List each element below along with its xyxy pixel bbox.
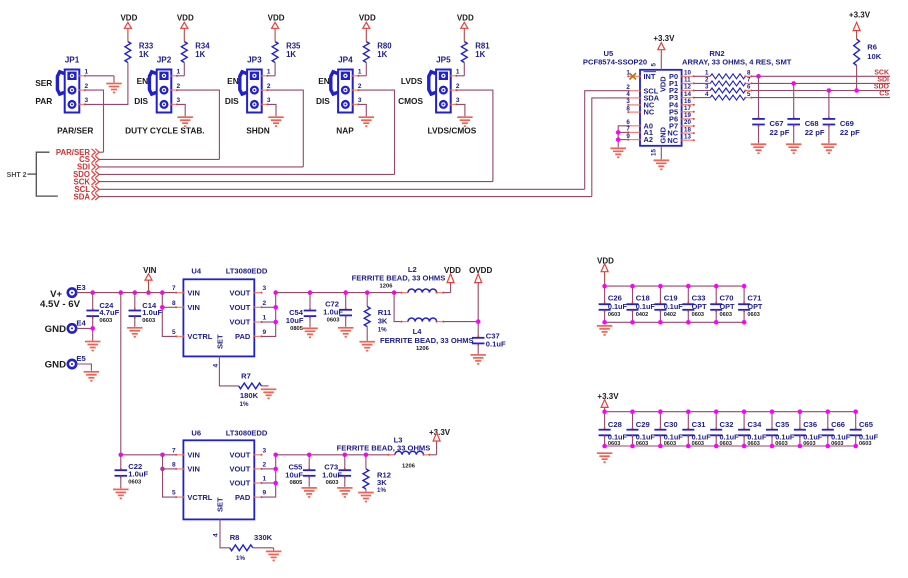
svg-text:1%: 1% <box>240 401 249 408</box>
svg-text:CMOS: CMOS <box>398 96 423 106</box>
svg-text:15: 15 <box>651 149 658 156</box>
U6 pin 9 PAD <box>235 490 266 502</box>
wire net SCL <box>99 188 585 190</box>
U6 SET label <box>213 497 225 537</box>
svg-text:2: 2 <box>358 83 362 90</box>
ground JP2 pin3 <box>177 117 193 126</box>
svg-text:3: 3 <box>177 97 181 104</box>
svg-text:2: 2 <box>456 83 460 90</box>
svg-text:1K: 1K <box>377 50 387 59</box>
label DIS JP4 <box>316 96 330 106</box>
svg-text:DUTY CYCLE STAB.: DUTY CYCLE STAB. <box>125 126 204 136</box>
power VDD R33 <box>120 14 137 42</box>
wire CS out <box>752 97 891 99</box>
label V+ <box>50 289 62 300</box>
junction u6b <box>160 467 165 472</box>
inductor L4 <box>380 318 478 352</box>
svg-text:INT: INT <box>644 72 656 81</box>
capacitor C14 <box>129 293 163 327</box>
svg-text:0603: 0603 <box>692 312 704 318</box>
svg-text:3: 3 <box>705 84 709 91</box>
svg-text:11: 11 <box>684 77 691 84</box>
svg-text:LT3080EDD: LT3080EDD <box>226 429 268 438</box>
svg-text:1206: 1206 <box>380 283 394 289</box>
U5 pin 16 P4 <box>669 98 695 109</box>
wire JP5 pin3 to ground <box>456 104 465 116</box>
wire U5 address pins <box>618 126 628 148</box>
svg-text:4: 4 <box>213 533 220 537</box>
U5 pin 8 NC <box>626 105 654 116</box>
ground VDD bank <box>597 326 613 335</box>
svg-text:SHDN: SHDN <box>246 126 270 136</box>
ground +3.3V bank <box>597 453 613 462</box>
capacitor C69 <box>823 91 860 144</box>
capacitor C33 <box>682 284 707 325</box>
RN2 resistor 1 <box>694 70 753 79</box>
RN2 resistor 2 <box>694 77 753 86</box>
wire JP3 pin1 to R35 <box>267 63 275 76</box>
junction input <box>90 290 95 295</box>
wire JP2 pin3 to ground <box>177 104 186 116</box>
wire U6 vin branch <box>163 455 177 497</box>
capacitor C55 <box>285 455 315 487</box>
junction E4 <box>90 326 95 331</box>
svg-text:NC: NC <box>644 108 655 117</box>
wire JP1 pin1 to ground <box>85 76 114 83</box>
junction input <box>119 290 124 295</box>
wire vout1 <box>262 321 276 323</box>
resistor R33 <box>125 42 154 63</box>
U5 pin 7 A1 <box>626 126 653 137</box>
capacitor C68 <box>787 83 824 143</box>
ground C37 <box>470 355 486 364</box>
svg-text:1K: 1K <box>139 50 149 59</box>
junction input <box>133 290 138 295</box>
node SCK <box>874 69 889 76</box>
svg-text:E4: E4 <box>76 319 86 328</box>
svg-text:12: 12 <box>684 84 691 91</box>
label PAR/SER <box>57 126 93 136</box>
U6 pin 2 VOUT <box>229 462 266 474</box>
svg-text:C32: C32 <box>720 420 734 429</box>
svg-text:1206: 1206 <box>402 463 416 469</box>
svg-text:10K: 10K <box>867 52 881 61</box>
wire JP5 pin2 to SCK <box>456 90 493 182</box>
node SDI <box>877 76 889 83</box>
junction C67 <box>756 74 761 79</box>
ground JP3 pin3 <box>268 117 284 126</box>
wire VDD bus bottom <box>605 321 745 323</box>
svg-text:+3.3V: +3.3V <box>849 11 871 20</box>
junction L4 OVDD <box>476 319 481 324</box>
svg-text:22 pF: 22 pF <box>805 128 825 137</box>
svg-text:1K: 1K <box>475 50 485 59</box>
svg-text:1: 1 <box>263 315 267 322</box>
svg-text:3: 3 <box>456 97 460 104</box>
svg-text:0.1uF: 0.1uF <box>664 302 684 311</box>
node SDA <box>74 192 100 201</box>
svg-text:VCTRL: VCTRL <box>187 493 212 502</box>
label NAP <box>336 126 354 136</box>
svg-text:VIN: VIN <box>187 303 200 312</box>
U5 pin 10 P0 <box>669 70 695 81</box>
svg-text:U4: U4 <box>191 266 201 275</box>
svg-text:0.1uF: 0.1uF <box>636 302 656 311</box>
svg-text:0402: 0402 <box>664 312 676 318</box>
ground JP1 pin1 <box>106 84 122 93</box>
U5 pin 2 SCL <box>626 84 658 95</box>
svg-text:0.1uF: 0.1uF <box>608 302 628 311</box>
node SDO <box>874 84 890 91</box>
svg-text:2: 2 <box>85 83 89 90</box>
svg-text:1%: 1% <box>377 487 386 494</box>
svg-text:13: 13 <box>684 133 691 140</box>
U5 pin 11 P1 <box>669 77 695 88</box>
wire net SDA <box>99 196 592 198</box>
resistor R6 <box>854 39 882 65</box>
svg-text:GND: GND <box>45 360 66 371</box>
svg-text:7: 7 <box>747 77 751 84</box>
junction A1 <box>616 130 621 135</box>
svg-text:C67: C67 <box>770 119 784 128</box>
wire OVDD down <box>477 283 479 338</box>
svg-text:LVDS: LVDS <box>401 76 423 86</box>
svg-text:VDD: VDD <box>177 14 194 23</box>
junction output <box>365 290 370 295</box>
capacitor C19 <box>654 284 683 325</box>
svg-text:3: 3 <box>626 98 630 105</box>
svg-text:NAP: NAP <box>336 126 354 136</box>
label EN JP3 <box>227 76 239 86</box>
wire JP3 pin3 to ground <box>267 104 276 116</box>
svg-text:LVDS/CMOS: LVDS/CMOS <box>428 126 477 136</box>
wire U4 vin branch <box>162 293 176 337</box>
svg-text:SDO: SDO <box>874 84 890 91</box>
wire R6 to SDO <box>856 65 858 90</box>
terminal E5 <box>68 354 87 368</box>
capacitor C71 <box>738 284 763 325</box>
capacitor C18 <box>627 284 656 325</box>
svg-text:U5: U5 <box>604 49 614 58</box>
ground R12 <box>358 493 374 502</box>
svg-text:0603: 0603 <box>326 480 340 486</box>
wire net PAR/SER <box>99 151 103 153</box>
svg-text:9: 9 <box>263 329 267 336</box>
svg-text:JP4: JP4 <box>338 55 353 64</box>
svg-text:4: 4 <box>705 91 709 98</box>
svg-text:SCK: SCK <box>874 69 889 76</box>
junction vout2 <box>273 305 278 310</box>
power VDD bank <box>597 256 614 286</box>
U5 VDD pin 5 <box>651 50 668 92</box>
svg-text:C69: C69 <box>840 119 854 128</box>
svg-text:JP3: JP3 <box>247 55 262 64</box>
svg-text:R8: R8 <box>230 533 240 542</box>
label 4.5V - 6V <box>40 299 81 310</box>
svg-text:VIN: VIN <box>187 465 200 474</box>
svg-text:LT3080EDD: LT3080EDD <box>226 266 268 275</box>
capacitor C31 <box>682 409 711 448</box>
U5 pin 6 A0 <box>626 119 653 130</box>
svg-text:0603: 0603 <box>142 318 156 324</box>
svg-text:VDD: VDD <box>659 76 668 92</box>
ground C24 <box>85 342 101 351</box>
ground C54 <box>302 328 318 337</box>
capacitor C37 <box>472 332 506 354</box>
svg-text:VDD: VDD <box>359 14 376 23</box>
junction output <box>343 290 348 295</box>
node CS <box>879 91 889 98</box>
capacitor C72 <box>323 293 352 327</box>
svg-text:2: 2 <box>626 84 630 91</box>
power VIN <box>143 266 157 293</box>
junction input <box>146 290 151 295</box>
ground R7 <box>261 389 277 398</box>
svg-text:0805: 0805 <box>290 326 304 332</box>
resistor R80 <box>363 42 392 63</box>
svg-text:3: 3 <box>267 97 271 104</box>
RN2 resistor 4 <box>694 91 753 100</box>
ground U5 address <box>610 148 626 157</box>
svg-text:1: 1 <box>456 69 460 76</box>
ground C22 <box>113 489 129 498</box>
U6 pin 8 VIN <box>172 462 200 474</box>
svg-text:4.5V - 6V: 4.5V - 6V <box>40 299 81 310</box>
capacitor C29 <box>627 409 656 448</box>
wire net SDI <box>99 166 303 168</box>
U5 pin 17 P5 <box>669 105 695 116</box>
wire SCK out <box>752 75 891 77</box>
U5 GND pin 15 <box>651 126 668 159</box>
capacitor C30 <box>654 409 683 448</box>
svg-text:SDI: SDI <box>877 76 889 83</box>
terminal E4 <box>68 319 87 333</box>
U5 pin 20 P7 <box>669 119 695 130</box>
svg-text:VDD: VDD <box>444 266 461 275</box>
svg-text:GND: GND <box>659 126 668 143</box>
junction feed <box>119 453 124 458</box>
svg-text:C31: C31 <box>692 420 707 429</box>
resistor R8 <box>230 533 274 562</box>
svg-text:FERRITE BEAD, 33 OHMS: FERRITE BEAD, 33 OHMS <box>337 443 431 452</box>
capacitor C66 <box>822 409 851 448</box>
svg-text:10uF: 10uF <box>286 316 304 325</box>
svg-text:C66: C66 <box>831 420 845 429</box>
node CS <box>79 155 99 164</box>
junction u6 output <box>343 453 348 458</box>
node SDO <box>73 170 99 179</box>
power OVDD <box>469 266 492 283</box>
svg-text:4: 4 <box>213 364 220 368</box>
svg-text:0402: 0402 <box>636 312 648 318</box>
ground C72 <box>338 328 354 337</box>
node SDI <box>77 163 99 172</box>
power +3.3V U5 <box>653 34 675 50</box>
svg-text:5: 5 <box>651 63 658 67</box>
U5 pin 19 P6 <box>669 112 695 123</box>
svg-text:VOUT: VOUT <box>229 479 250 488</box>
svg-text:SDA: SDA <box>74 192 91 201</box>
resistor R35 <box>272 42 301 63</box>
svg-text:3K: 3K <box>377 478 387 487</box>
svg-text:0603: 0603 <box>720 441 732 447</box>
connector JP5 <box>429 55 460 112</box>
svg-text:ARRAY, 33 OHMS, 4 RES, SMT: ARRAY, 33 OHMS, 4 RES, SMT <box>682 58 792 67</box>
svg-text:180K: 180K <box>240 391 259 400</box>
power VDD R35 <box>268 14 285 42</box>
U5 pin 9 A2 <box>626 133 653 144</box>
svg-text:8: 8 <box>626 105 630 112</box>
capacitor C67 <box>752 76 789 143</box>
svg-text:1.0uF: 1.0uF <box>142 308 162 317</box>
capacitor C34 <box>738 409 767 448</box>
capacitor C28 <box>599 409 628 448</box>
svg-text:9: 9 <box>626 133 630 140</box>
U4 pin 9 PAD <box>235 329 266 341</box>
svg-text:C68: C68 <box>805 119 819 128</box>
svg-text:R6: R6 <box>867 43 877 52</box>
svg-text:1: 1 <box>85 69 89 76</box>
connector JP4 <box>331 55 362 112</box>
wire JP1 pin2 to PAR/SER <box>85 90 104 152</box>
wire JP3 pin2 to SDI <box>267 90 303 167</box>
svg-text:VOUT: VOUT <box>229 318 250 327</box>
svg-text:7: 7 <box>172 285 176 292</box>
svg-text:PAR/SER: PAR/SER <box>57 126 93 136</box>
svg-text:1%: 1% <box>378 326 387 333</box>
wire JP2 pin2 to CS <box>177 90 220 159</box>
label LVDS/CMOS <box>428 126 477 136</box>
wire U4 vout tie <box>262 293 276 337</box>
wire E5 to ground <box>77 364 92 371</box>
wire JP4 pin1 to R80 <box>358 63 366 76</box>
junction vin8 <box>160 305 165 310</box>
label CMOS <box>398 96 423 106</box>
ground C69 <box>821 144 837 153</box>
U5 pin 12 P2 <box>669 84 695 95</box>
sheet bracket SHT 2 <box>7 152 58 196</box>
U5 pin 14 P3 <box>669 91 695 102</box>
resistor R12 <box>363 455 391 494</box>
svg-text:3: 3 <box>358 97 362 104</box>
ground C73 <box>337 488 353 497</box>
power +3.3V bank <box>597 392 619 412</box>
svg-text:2: 2 <box>705 77 709 84</box>
svg-text:0603: 0603 <box>608 312 620 318</box>
svg-text:JP1: JP1 <box>65 55 80 64</box>
svg-text:2: 2 <box>263 300 267 307</box>
svg-text:10: 10 <box>684 70 691 77</box>
svg-text:VDD: VDD <box>457 14 474 23</box>
U6 pin 7 VIN <box>172 447 200 459</box>
junction vout3 <box>273 290 278 295</box>
svg-text:0603: 0603 <box>720 312 732 318</box>
node SCK <box>74 177 100 186</box>
svg-text:0603: 0603 <box>803 441 815 447</box>
svg-text:1: 1 <box>358 69 362 76</box>
junction input <box>160 290 165 295</box>
svg-text:0603: 0603 <box>636 441 648 447</box>
label EN JP4 <box>318 76 330 86</box>
label DIS JP2 <box>134 96 148 106</box>
wire U6 vout tie <box>262 455 276 497</box>
inductor L2 <box>352 265 451 294</box>
svg-text:C36: C36 <box>803 420 817 429</box>
svg-text:6: 6 <box>747 84 751 91</box>
wire A2 <box>618 139 628 141</box>
svg-text:VIN: VIN <box>187 451 200 460</box>
svg-text:+3.3V: +3.3V <box>653 34 675 43</box>
svg-text:C65: C65 <box>859 420 874 429</box>
svg-text:5: 5 <box>172 329 176 336</box>
power +3.3V R6 <box>849 11 871 39</box>
wire L3 to +3.3V <box>436 441 438 455</box>
svg-text:1206: 1206 <box>416 346 430 352</box>
power VDD R80 <box>359 14 376 42</box>
svg-text:9: 9 <box>263 490 267 497</box>
wire SDO out <box>752 90 891 92</box>
capacitor C26 <box>599 284 628 325</box>
wire +3.3V bus bottom <box>605 445 856 447</box>
resistor network RN2 label <box>682 49 792 67</box>
U4 pin 1 VOUT <box>229 315 266 327</box>
junction u6a <box>160 453 165 458</box>
svg-text:2: 2 <box>177 83 181 90</box>
svg-text:EN: EN <box>227 76 239 86</box>
svg-text:10uF: 10uF <box>285 470 303 479</box>
svg-text:VIN: VIN <box>143 266 157 275</box>
svg-text:C29: C29 <box>636 420 650 429</box>
svg-text:0805: 0805 <box>289 480 303 486</box>
svg-text:PAD: PAD <box>235 332 251 341</box>
svg-text:EN: EN <box>137 76 149 86</box>
svg-text:0603: 0603 <box>664 441 676 447</box>
resistor R11 <box>364 293 392 341</box>
svg-text:0603: 0603 <box>859 441 871 447</box>
op-amp U4 outline <box>183 266 267 356</box>
wire U6 SET <box>220 519 230 547</box>
U5 pin 13 NC <box>667 133 694 144</box>
U4 pin 5 VCTRL <box>172 329 213 341</box>
svg-text:3K: 3K <box>378 316 388 325</box>
svg-text:DIS: DIS <box>134 96 148 106</box>
capacitor C65 <box>850 409 879 448</box>
wire U4 vin8 <box>162 306 176 308</box>
svg-text:1.0uF: 1.0uF <box>128 470 148 479</box>
svg-text:PCF8574-SSOP20: PCF8574-SSOP20 <box>583 58 647 67</box>
junction C68 <box>791 81 796 86</box>
wire U4 SET <box>219 356 238 386</box>
capacitor C36 <box>794 409 823 448</box>
svg-text:3: 3 <box>85 97 89 104</box>
svg-text:0603: 0603 <box>99 318 113 324</box>
svg-text:8: 8 <box>747 70 751 77</box>
svg-text:C34: C34 <box>747 420 762 429</box>
ground E5 <box>84 372 100 381</box>
svg-text:5: 5 <box>747 91 751 98</box>
svg-text:2: 2 <box>263 462 267 469</box>
label PAR <box>35 96 52 106</box>
svg-text:8: 8 <box>172 300 176 307</box>
ground U5 <box>654 160 670 169</box>
svg-text:OPT: OPT <box>720 302 736 311</box>
svg-text:17: 17 <box>684 105 691 112</box>
wire JP1 pin3 to R33 <box>85 63 128 105</box>
svg-text:0603: 0603 <box>775 441 787 447</box>
svg-text:1: 1 <box>705 70 709 77</box>
resistor R7 <box>239 372 269 409</box>
svg-text:3: 3 <box>263 447 267 454</box>
